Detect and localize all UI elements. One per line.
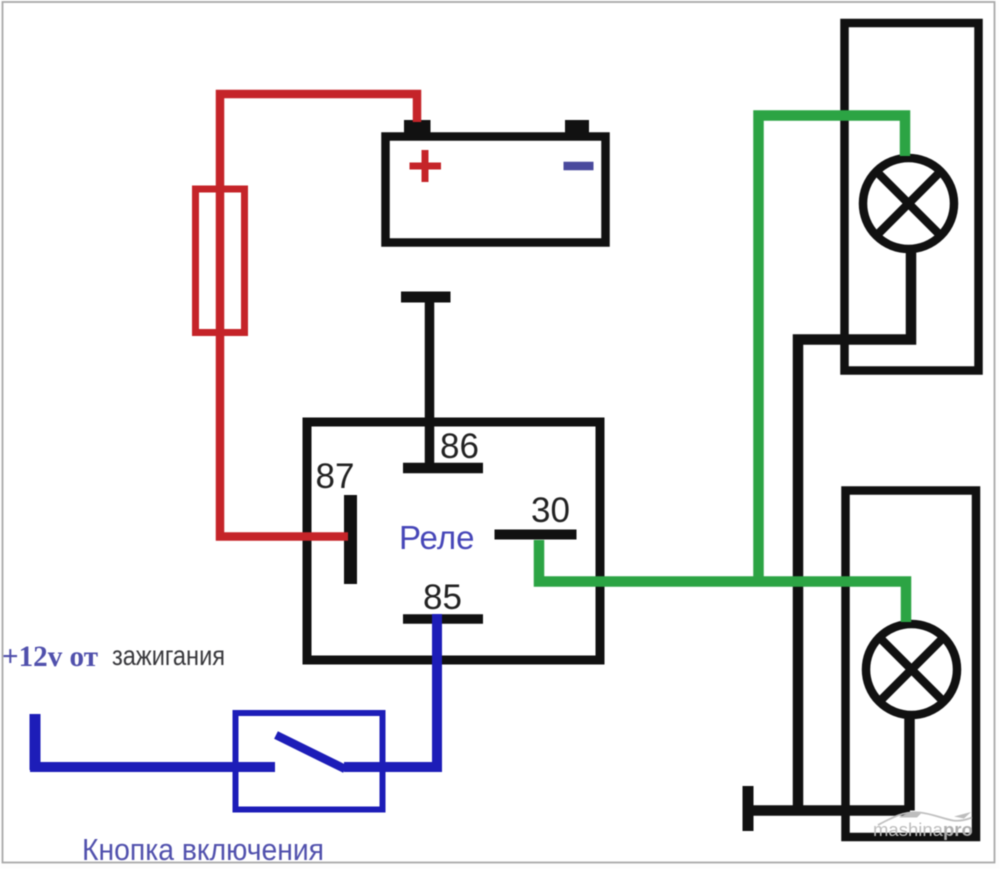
wire pin 86 up to terminal bar — [425, 297, 435, 468]
svg-text:mashinapro: mashinapro — [873, 819, 973, 840]
svg-text:+12v от: +12v от — [2, 640, 98, 673]
wire switch to relay pin 85 (blue) — [344, 614, 437, 767]
battery plus label — [410, 150, 442, 182]
ground bus wire — [748, 805, 910, 816]
junction green wire to lamp HL1 — [759, 116, 906, 587]
svg-text:30: 30 — [531, 491, 570, 530]
svg-text:86: 86 — [440, 427, 479, 466]
ground terminal — [743, 786, 754, 831]
lamp HL2 — [866, 624, 957, 715]
switch S1 blade — [276, 735, 345, 769]
terminal bar above relay — [401, 292, 451, 303]
pin 85 — [403, 614, 483, 624]
battery minus label — [564, 162, 594, 171]
svg-text:Реле: Реле — [399, 519, 474, 556]
svg-text:87: 87 — [316, 457, 355, 496]
lamp HL1 — [863, 158, 954, 249]
pin 86 — [403, 463, 483, 474]
switch S1 box — [236, 713, 383, 810]
pin 30 — [495, 530, 577, 540]
svg-text:Кнопка включения: Кнопка включения — [82, 832, 324, 867]
relay K1 — [307, 422, 600, 660]
wire ignition +12v to switch (blue) — [30, 714, 275, 770]
wire lamp HL1 to ground bus — [798, 247, 911, 811]
pin 87 — [344, 495, 357, 584]
svg-text:зажигания: зажигания — [112, 640, 225, 671]
watermark mashinapro — [873, 812, 973, 840]
lamp HL1 box — [845, 23, 979, 371]
wire lamp HL2 to ground bus — [904, 712, 915, 811]
battery GB1 — [386, 120, 606, 243]
wire battery plus to fuse to relay pin 87 — [220, 94, 417, 537]
lamp HL2 box — [846, 491, 977, 838]
wire relay pin 30 to lamp HL2 (green) — [539, 540, 906, 622]
fuse F1 — [196, 189, 245, 333]
svg-text:85: 85 — [423, 578, 462, 617]
